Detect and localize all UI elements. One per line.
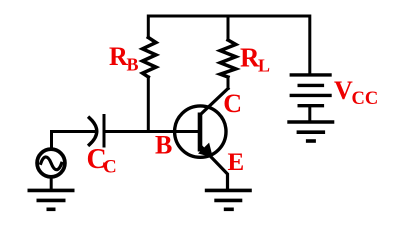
svg-text:CC: CC bbox=[352, 89, 379, 109]
svg-text:C: C bbox=[103, 157, 117, 178]
svg-text:R: R bbox=[109, 42, 128, 71]
svg-text:B: B bbox=[127, 55, 139, 75]
svg-text:B: B bbox=[155, 131, 172, 160]
svg-text:C: C bbox=[223, 89, 242, 118]
svg-text:E: E bbox=[228, 149, 245, 176]
svg-text:L: L bbox=[258, 56, 270, 76]
svg-text:V: V bbox=[334, 76, 353, 105]
svg-text:R: R bbox=[240, 43, 260, 73]
